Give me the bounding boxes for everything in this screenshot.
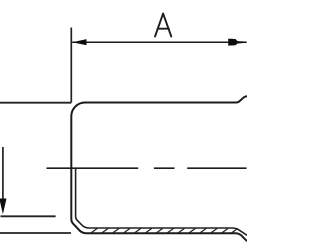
left figure inner line <box>1 215 56 217</box>
body inner surface (section) <box>76 168 247 235</box>
arrowhead right <box>228 39 246 46</box>
dimension line A <box>72 41 246 43</box>
dimension label A <box>155 14 171 37</box>
arrowhead down <box>0 199 6 215</box>
depth dimension line (left) <box>2 147 4 200</box>
left figure top edge <box>0 102 71 104</box>
centerline <box>47 167 247 169</box>
section hatching <box>91 228 238 233</box>
arrowhead left <box>72 39 86 45</box>
extension line <box>70 28 72 103</box>
body outer profile <box>71 96 247 241</box>
left figure bottom edge <box>0 232 71 234</box>
